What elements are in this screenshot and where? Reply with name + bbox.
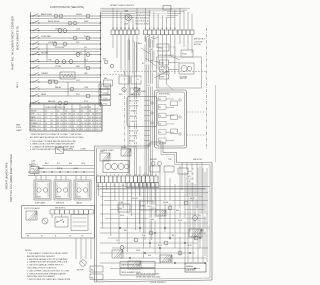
element E4 [124, 164, 128, 168]
strip C drop wires [98, 183, 100, 197]
svg-text:2-3: 2-3 [99, 126, 101, 128]
svg-text:C-2: C-2 [99, 120, 102, 122]
svg-text:P1-3: P1-3 [104, 98, 108, 100]
svg-text:Y-5 DOOR: Y-5 DOOR [129, 121, 138, 123]
svg-text:BAKE ELEM: BAKE ELEM [41, 13, 52, 16]
top wire id stack [135, 11, 167, 14]
svg-text:1-2: 1-2 [77, 117, 79, 119]
svg-text:NOTE:: NOTE: [25, 250, 32, 252]
svg-text:1-2: 1-2 [92, 129, 94, 131]
svg-text:5. USE COPPER CONDUCTORS ONLY,: 5. USE COPPER CONDUCTORS ONLY, 75 C MIN [27, 270, 69, 272]
svg-text:DISCONNECTION OF CONTROLS: DISCONNECTION OF CONTROLS [27, 268, 57, 270]
svg-text:LAMP: LAMP [41, 93, 47, 96]
svg-text:HI LIM: HI LIM [163, 202, 169, 204]
svg-text:BAKE ELEMENT 2850W: BAKE ELEMENT 2850W [122, 264, 141, 267]
control board column 2 [171, 101, 178, 105]
svg-text:1-4: 1-4 [69, 117, 71, 119]
svg-text:C-2: C-2 [92, 126, 95, 128]
strip A2 drop wires [145, 35, 147, 44]
grid horizontal wires upper [100, 188, 205, 190]
latch wires [169, 62, 180, 64]
svg-text:CONV: CONV [73, 168, 79, 170]
harness bundle verticals [144, 36, 146, 176]
svg-text:MOTOR: MOTOR [180, 78, 187, 80]
clock assembly box U2 [127, 97, 157, 127]
svg-text:4. CAUTION: LABEL ALL WIRES PR: 4. CAUTION: LABEL ALL WIRES PRIOR TO [27, 264, 64, 267]
svg-text:W-9: W-9 [148, 255, 151, 257]
svg-text:2-3: 2-3 [45, 117, 47, 119]
wire branch c [67, 82, 69, 96]
svg-text:2-3: 2-3 [65, 129, 67, 131]
svg-text:OR-8: OR-8 [81, 163, 85, 165]
svg-text:P5-1: P5-1 [91, 269, 95, 271]
switch S8 [32, 61, 33, 62]
wire rung 1 [31, 15, 101, 17]
switch S13 [32, 95, 33, 96]
element E2 [112, 164, 118, 170]
aux component box [104, 80, 113, 86]
bottom enclosure bottom wall [95, 280, 213, 282]
svg-text:L1-5: L1-5 [38, 126, 41, 128]
load B22 [58, 101, 62, 105]
svg-text:DR SW: DR SW [132, 198, 138, 200]
element group G2 [54, 180, 71, 200]
svg-text:1-2: 1-2 [45, 114, 47, 116]
svg-text:2.4KW: 2.4KW [36, 197, 41, 199]
svg-text:3-4: 3-4 [57, 117, 59, 119]
svg-text:R-15: R-15 [188, 245, 192, 247]
lock motor M2 [179, 63, 194, 74]
load B3 [86, 14, 90, 18]
load B10 [53, 42, 57, 46]
right column relay RH5 [189, 229, 202, 237]
load B9 [86, 36, 90, 40]
svg-text:BK-2: BK-2 [138, 43, 142, 45]
wire bottom bus 4 [38, 167, 95, 169]
wire bottom bus 3 [42, 165, 95, 167]
load B18 [48, 80, 52, 84]
svg-text:R-4: R-4 [57, 163, 60, 165]
svg-text:3-4: 3-4 [77, 126, 79, 128]
lock terminal row [50, 210, 55, 214]
svg-text:BK-1 OVEN: BK-1 OVEN [129, 101, 139, 103]
svg-text:L2 (BK): L2 (BK) [80, 149, 86, 151]
load B23 [64, 101, 68, 105]
svg-text:SERVICING (SEE TECH SHEET): SERVICING (SEE TECH SHEET) [27, 276, 55, 278]
svg-text:40W: 40W [76, 66, 80, 68]
load B4 [68, 21, 72, 25]
switch S1 [32, 15, 33, 16]
upper-right tag smudges [138, 42, 147, 45]
svg-text:SW3: SW3 [160, 77, 164, 79]
svg-text:CONV: CONV [31, 129, 37, 131]
switch S9 [32, 67, 33, 68]
cooling fan M1 [125, 14, 131, 20]
svg-text:RELAY: RELAY [121, 146, 128, 149]
drop wire bends to latch [150, 60, 160, 63]
svg-text:ELECTRONIC: ELECTRONIC [159, 94, 171, 96]
load B17 [86, 66, 90, 70]
svg-text:X: X [81, 120, 82, 122]
svg-text:P3: P3 [122, 185, 124, 187]
control board internals [159, 97, 167, 101]
terminal strip TBC [97, 176, 101, 183]
svg-text:* DENOTES SWITCH CONTACTS CLOS: * DENOTES SWITCH CONTACTS CLOSED, ** SEE… [30, 133, 82, 136]
svg-text:BAKE: BAKE [31, 116, 37, 119]
lock motor M3 [42, 218, 48, 224]
svg-text:TOD 1: TOD 1 [147, 206, 152, 208]
svg-text:3-4: 3-4 [92, 114, 94, 116]
chassis dash border right [206, 28, 208, 150]
svg-text:RELAY: RELAY [55, 86, 62, 89]
strip A2 feed wires [145, 8, 147, 30]
svg-text:P0: P0 [97, 185, 99, 187]
svg-text:W-6: W-6 [69, 163, 72, 165]
svg-text:CHART: CHART [16, 129, 22, 132]
wire right rail N [100, 12, 102, 107]
svg-text:P2-8: P2-8 [84, 101, 88, 103]
svg-text:1-4: 1-4 [92, 123, 94, 125]
grid junction dots [139, 227, 140, 228]
load B20 [70, 87, 74, 91]
clock motor M6 [134, 87, 138, 91]
element label box 2 [120, 269, 155, 275]
svg-text:4. SWITCH SHOWN WITH DOOR CLOS: 4. SWITCH SHOWN WITH DOOR CLOSED [30, 149, 68, 151]
svg-text:LOCK SW: LOCK SW [194, 41, 203, 43]
svg-text:SEE NOTE 2: SEE NOTE 2 [193, 159, 203, 161]
wire rung 10 [31, 74, 101, 76]
switch S4 [32, 37, 33, 38]
svg-text:Y-8: Y-8 [198, 215, 201, 217]
svg-text:P1-4: P1-4 [104, 104, 108, 106]
wire rung 4 [31, 37, 101, 39]
svg-text:2-3: 2-3 [51, 114, 53, 116]
svg-text:P4-1: P4-1 [84, 59, 88, 61]
latch assembly dashed box [157, 57, 202, 88]
grid vertical wires [139, 166, 141, 232]
svg-text:SEE NOTE: SEE NOTE [56, 203, 64, 205]
element E1 [105, 164, 111, 170]
grid relay RH4 [156, 210, 166, 216]
svg-text:JUNCTION BLOCK (SEE NOTE): JUNCTION BLOCK (SEE NOTE) [50, 7, 84, 9]
wire tag column below U2 [129, 129, 144, 132]
svg-text:1-4: 1-4 [51, 129, 53, 131]
connector P1 [99, 84, 111, 89]
svg-text:W-22: W-22 [158, 245, 162, 247]
svg-text:X: X [89, 114, 90, 116]
load B21 [86, 94, 90, 98]
load B13 [86, 53, 90, 57]
wire rung 4 return [31, 39, 101, 41]
svg-text:C3: C3 [65, 110, 67, 112]
svg-text:SW1: SW1 [160, 63, 164, 65]
svg-text:BACK (WHITE R): BACK (WHITE R) [16, 26, 20, 50]
wire rung 2 [31, 22, 101, 24]
svg-text:C5: C5 [81, 110, 83, 112]
lock relay hatch [26, 211, 37, 220]
switch S14 [32, 102, 33, 103]
svg-text:REL: REL [104, 78, 108, 80]
svg-text:OR-4 BRL: OR-4 BRL [129, 116, 137, 118]
svg-text:DOOR SW: DOOR SW [81, 107, 91, 109]
load B2 [59, 14, 63, 18]
svg-text:P3-2: P3-2 [76, 80, 80, 82]
svg-text:2-3: 2-3 [81, 117, 83, 119]
svg-text:SW2: SW2 [160, 70, 164, 72]
strip B drop wires [179, 35, 181, 44]
svg-text:7. WITH POWER OFF CHECK ALL CO: 7. WITH POWER OFF CHECK ALL CONNECTIONS [27, 278, 71, 281]
wire rung 9 [31, 67, 101, 69]
svg-text:LIT PN 74008973: LIT PN 74008973 [150, 282, 167, 284]
svg-text:BR-3: BR-3 [124, 230, 128, 232]
wire rung 8 return [31, 63, 101, 65]
svg-text:1-4: 1-4 [89, 126, 91, 128]
svg-text:L1-4: L1-4 [38, 123, 41, 125]
grid load L5 [168, 206, 172, 210]
right column load L7 [193, 216, 198, 221]
svg-text:K5: K5 [159, 132, 161, 134]
right column verticals [187, 168, 189, 262]
load B16 [69, 60, 73, 64]
svg-text:FRONT (BLACK P/N): FRONT (BLACK P/N) [5, 163, 9, 190]
svg-text:X: X [99, 129, 100, 131]
svg-text:N.O.: N.O. [76, 42, 80, 44]
wire rung 10 return [31, 76, 101, 78]
svg-text:X: X [51, 117, 52, 119]
bottom enclosure top and staircase border [95, 142, 213, 163]
right feed wires [181, 163, 183, 191]
svg-text:DOOR LOCK ASSY: DOOR LOCK ASSY [24, 207, 41, 210]
grid load circles [120, 246, 124, 250]
svg-text:2. WIRE COLOR CODE PER CHART S: 2. WIRE COLOR CODE PER CHART SHOWN LEFT [30, 143, 75, 146]
svg-text:P1: P1 [105, 185, 107, 187]
svg-text:BAKE: BAKE [39, 167, 45, 170]
switch S10 [32, 74, 33, 75]
svg-text:X: X [77, 123, 78, 125]
wire branch a [46, 44, 48, 62]
connector P5 [90, 266, 103, 272]
svg-text:1. DISCONNECT POWER PLUG FROM: 1. DISCONNECT POWER PLUG FROM POWER [27, 253, 68, 255]
svg-text:3. CABINET MUST BE GROUNDED PE: 3. CABINET MUST BE GROUNDED PER CODE [27, 261, 68, 264]
wire rung 3 return [31, 32, 101, 34]
svg-text:C7: C7 [96, 110, 98, 112]
lock board [71, 215, 88, 231]
svg-text:3-4: 3-4 [81, 123, 83, 125]
svg-text:L1-2: L1-2 [38, 117, 41, 119]
svg-text:MOTOR: MOTOR [77, 270, 84, 272]
svg-text:1-2: 1-2 [61, 129, 63, 131]
svg-text:REL 2: REL 2 [176, 210, 181, 212]
svg-text:SEE NOTE 4: SEE NOTE 4 [194, 39, 205, 41]
svg-text:1-4: 1-4 [73, 114, 75, 116]
svg-text:ALL SWITCHES SHOWN IN OFF POSI: ALL SWITCHES SHOWN IN OFF POSITION (DOOR… [30, 136, 84, 139]
svg-text:DOOR LATCH ASSY: DOOR LATCH ASSY [158, 54, 175, 57]
load B6 [58, 29, 62, 33]
svg-text:WIRING: WIRING [186, 266, 194, 268]
element group G1 [34, 180, 51, 200]
svg-text:HI LIMIT: HI LIMIT [41, 52, 49, 54]
grid relay RH1 [112, 250, 123, 258]
svg-text:V-11: V-11 [142, 235, 145, 237]
strip A1 feed wires [112, 8, 114, 30]
svg-text:BROIL ELEM: BROIL ELEM [48, 21, 60, 23]
transformer T1 [130, 88, 140, 95]
wire rung 14 [31, 102, 101, 104]
svg-text:C-2: C-2 [65, 123, 68, 125]
grid horizontal wires lower [100, 227, 210, 229]
bus junction dots [43, 171, 44, 172]
drop wire diagonals [141, 48, 150, 54]
svg-text:K4: K4 [159, 124, 161, 126]
svg-text:SEE NOTE 3: SEE NOTE 3 [55, 208, 65, 210]
wire rung 7 [31, 54, 101, 56]
svg-text:W-2 RELAY: W-2 RELAY [129, 105, 139, 108]
upper latch feed box 1 [157, 44, 169, 51]
switch S11 [32, 81, 33, 82]
svg-text:1-4: 1-4 [61, 123, 63, 125]
svg-text:CTRL: CTRL [141, 206, 145, 208]
svg-text:1-2: 1-2 [65, 126, 67, 128]
svg-text:X: X [85, 117, 86, 119]
element group G3 [74, 180, 91, 200]
door lock assembly box [22, 206, 95, 239]
svg-text:SW: SW [103, 59, 106, 61]
svg-text:1. DISCONNECT POWER BEFORE SER: 1. DISCONNECT POWER BEFORE SERVICING UNI… [30, 141, 77, 143]
harness pair verticals B [134, 42, 136, 176]
harness pair verticals A [127, 40, 129, 176]
relay RL2 [121, 149, 131, 156]
svg-text:SEE NOTE 5 FOR GROUND: SEE NOTE 5 FOR GROUND [136, 274, 160, 276]
svg-text:K3: K3 [159, 115, 161, 117]
svg-text:X: X [45, 120, 46, 122]
thermostat box [60, 72, 75, 79]
svg-text:K1: K1 [159, 99, 161, 101]
switch S2 [32, 22, 33, 23]
right small boxes [150, 166, 160, 172]
svg-text:2-3: 2-3 [69, 126, 71, 128]
svg-text:L1-3: L1-3 [38, 120, 41, 122]
wire top bus group [101, 7, 191, 9]
switch S6 [32, 48, 33, 49]
svg-text:W-21: W-21 [187, 176, 191, 178]
svg-text:2-3: 2-3 [73, 123, 75, 125]
svg-text:L1-6: L1-6 [38, 129, 41, 131]
grid relay RH2 [128, 261, 141, 269]
element cluster box [103, 161, 129, 173]
svg-text:W-5: W-5 [150, 49, 153, 51]
svg-text:C2: C2 [57, 110, 59, 112]
svg-text:P1-6: P1-6 [76, 94, 80, 96]
ladder drop wires [35, 176, 37, 181]
clock motor pair boxes [119, 76, 129, 84]
lock cam switch [55, 217, 68, 227]
switch S5 [32, 43, 33, 44]
load B19 [54, 80, 58, 84]
svg-text:1-4: 1-4 [65, 120, 67, 122]
strip B feed wires [179, 8, 181, 30]
console dashed top [114, 71, 207, 73]
svg-text:REV 0: REV 0 [17, 81, 19, 88]
wire rung 5 [31, 43, 101, 45]
svg-text:X: X [69, 129, 70, 131]
load B12 [76, 53, 80, 57]
load B15 [62, 60, 66, 64]
svg-text:2. SEE WIRE GAUGES FOR CIRCUIT: 2. SEE WIRE GAUGES FOR CIRCUIT RATINGS [27, 258, 68, 261]
svg-text:BK-20: BK-20 [187, 171, 192, 173]
upper feed box [56, 148, 64, 154]
svg-text:P2: P2 [114, 185, 116, 187]
svg-text:THERM: THERM [41, 73, 48, 75]
svg-text:C-2: C-2 [73, 117, 76, 119]
switch S7 [32, 54, 33, 55]
load B11 [63, 42, 67, 46]
svg-text:MODE: MODE [31, 110, 37, 112]
wire drop from lock box [75, 238, 77, 259]
terminal strip TBA1 [111, 30, 115, 35]
svg-text:1.2KW: 1.2KW [76, 197, 81, 199]
svg-text:BK-2: BK-2 [45, 163, 49, 165]
svg-text:C-2: C-2 [69, 120, 72, 122]
terminal strip TBC second row [126, 183, 130, 188]
svg-text:HI-LIMIT: HI-LIMIT [150, 159, 158, 161]
svg-text:P1-1: P1-1 [104, 87, 108, 89]
svg-text:BU-15 GY-16 W-17: BU-15 GY-16 W-17 [136, 23, 151, 25]
svg-text:OR-9: OR-9 [150, 219, 154, 221]
dashed link upper [187, 111, 207, 113]
svg-text:3.0KW: 3.0KW [56, 197, 61, 199]
svg-text:C-2: C-2 [61, 126, 64, 128]
bottom main bus pair [97, 186, 211, 188]
svg-text:R-8: R-8 [142, 63, 145, 65]
console dash-dot left border [124, 72, 126, 150]
svg-text:PART NO. ON LOWER RIGHT CORNER: PART NO. ON LOWER RIGHT CORNER [9, 154, 13, 202]
wire rung 1 return [31, 17, 101, 19]
wire left rail L1 [30, 12, 32, 107]
svg-text:3-4: 3-4 [89, 117, 91, 119]
svg-text:1-4: 1-4 [57, 126, 59, 128]
svg-text:GY-2: GY-2 [116, 240, 120, 242]
svg-text:1-2: 1-2 [99, 123, 101, 125]
wire branch b [84, 49, 86, 68]
svg-text:FAN SW: FAN SW [48, 100, 55, 103]
svg-text:K2: K2 [159, 107, 161, 109]
wire rung 13 [31, 95, 101, 97]
svg-text:BK-7: BK-7 [172, 235, 176, 237]
load B7 [63, 29, 67, 33]
svg-text:BEFORE SERVICING THIS UNIT: BEFORE SERVICING THIS UNIT [27, 256, 56, 258]
rail junction dots [30, 15, 31, 16]
svg-text:C1: C1 [45, 110, 47, 112]
svg-text:DIAGRAM: DIAGRAM [186, 269, 195, 272]
dashed link lower [187, 134, 207, 136]
U2 contact circles [151, 102, 153, 104]
svg-text:3-4: 3-4 [51, 120, 53, 122]
wire rung 6 return [31, 50, 101, 52]
svg-text:GY-6: GY-6 [178, 220, 182, 222]
svg-text:L1 (RED): L1 (RED) [66, 149, 73, 151]
svg-text:W-14: W-14 [120, 215, 124, 217]
svg-text:N W: N W [31, 166, 35, 168]
svg-text:OVEN TEMP SWITCH: OVEN TEMP SWITCH [45, 107, 66, 109]
grid component box B [140, 201, 153, 210]
page edge line [215, 85, 217, 162]
element label box 1 [120, 262, 155, 268]
svg-text:CLEAN: CLEAN [31, 122, 38, 125]
svg-text:CONV FAN: CONV FAN [41, 35, 51, 38]
svg-text:C4: C4 [73, 110, 75, 112]
svg-text:R-3 BAKE: R-3 BAKE [129, 110, 138, 113]
svg-text:3-4: 3-4 [45, 123, 47, 125]
